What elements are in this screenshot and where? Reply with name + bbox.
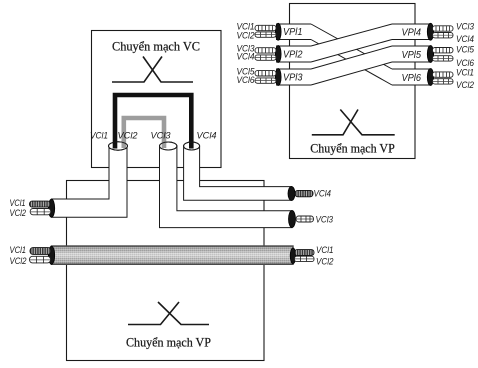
svg-text:VCl4: VCl4 bbox=[197, 130, 217, 141]
svg-text:VCl2: VCl2 bbox=[10, 207, 27, 218]
svg-text:VCl3: VCl3 bbox=[316, 214, 334, 225]
svg-text:VCl1: VCl1 bbox=[316, 244, 334, 255]
svg-text:VCl2: VCl2 bbox=[316, 255, 334, 266]
svg-text:VPl5: VPl5 bbox=[402, 50, 422, 61]
svg-text:VCl1: VCl1 bbox=[90, 130, 108, 141]
svg-text:VCl2: VCl2 bbox=[10, 255, 28, 266]
svg-text:VPl6: VPl6 bbox=[402, 73, 422, 84]
svg-text:Chuyển mạch VC: Chuyển mạch VC bbox=[112, 39, 200, 54]
svg-text:VCl1: VCl1 bbox=[10, 244, 27, 255]
svg-text:VCl2: VCl2 bbox=[237, 29, 256, 40]
svg-text:VPl1: VPl1 bbox=[283, 27, 303, 38]
svg-text:VCl4: VCl4 bbox=[237, 50, 255, 61]
svg-text:Chuyển mạch VP: Chuyển mạch VP bbox=[126, 335, 211, 350]
svg-text:VCl3: VCl3 bbox=[456, 21, 475, 32]
svg-text:VPl2: VPl2 bbox=[283, 49, 303, 60]
svg-text:VPl4: VPl4 bbox=[402, 27, 422, 38]
svg-text:VCl1: VCl1 bbox=[456, 67, 474, 78]
svg-text:VPl3: VPl3 bbox=[283, 73, 303, 84]
svg-text:VCl5: VCl5 bbox=[456, 44, 475, 55]
svg-text:VCl2: VCl2 bbox=[118, 130, 139, 141]
svg-text:VCl2: VCl2 bbox=[456, 79, 475, 90]
svg-text:VCl4: VCl4 bbox=[456, 33, 474, 44]
svg-text:VCl3: VCl3 bbox=[151, 130, 172, 141]
svg-text:VCl6: VCl6 bbox=[237, 74, 256, 85]
svg-text:VCl4: VCl4 bbox=[314, 188, 332, 199]
svg-text:Chuyển mạch VP: Chuyển mạch VP bbox=[310, 141, 395, 156]
